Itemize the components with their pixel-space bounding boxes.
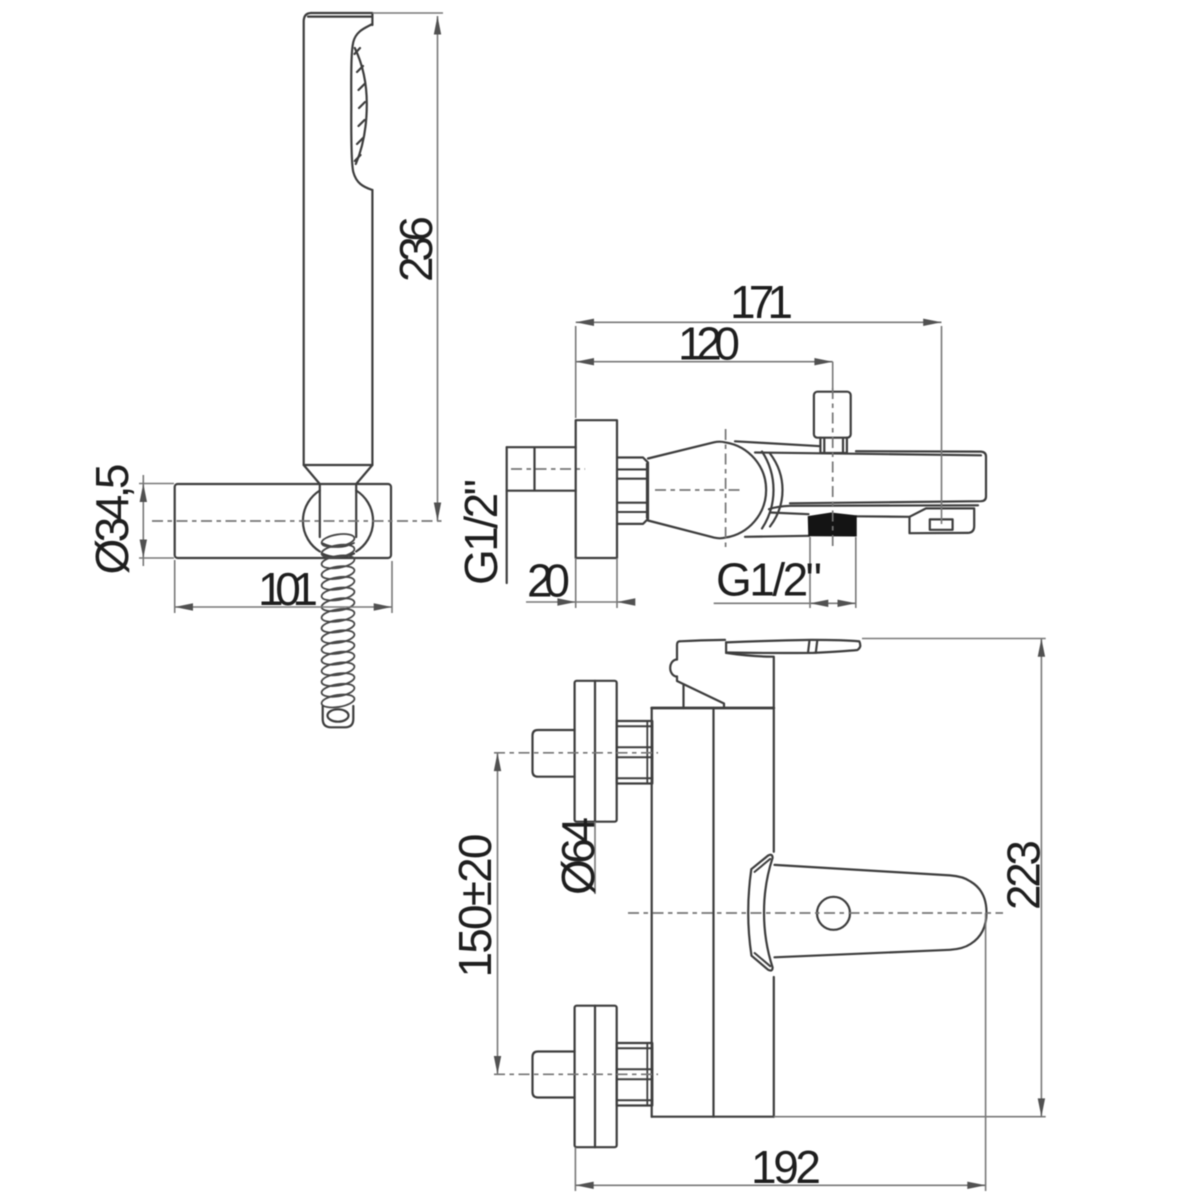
- svg-text:223: 223: [998, 840, 1050, 910]
- lower pipe centerline: [494, 1073, 658, 1075]
- hose end cap: [323, 706, 354, 727]
- upper pipe centerline: [494, 752, 658, 754]
- dimension 192 line: [575, 1184, 985, 1186]
- side view diverter knob: [814, 392, 851, 453]
- cone horizontal centerline: [655, 489, 743, 491]
- dimension 236 line: [437, 16, 439, 521]
- side view mixer body: [735, 441, 986, 509]
- front view lever top: [680, 640, 861, 657]
- dimension O34,5 arrows: [140, 484, 147, 503]
- bracket centerline: [152, 520, 443, 522]
- diverter shower outlet (black): [809, 513, 857, 536]
- side view G1/2 thread line: [506, 447, 508, 583]
- dimension 20 arrows: [557, 598, 575, 605]
- front view centerline: [628, 912, 1003, 914]
- front view upper pipe: [533, 730, 575, 777]
- wand lower taper: [304, 465, 373, 484]
- svg-text:G1/2": G1/2": [455, 479, 507, 585]
- dimension 101 extension line: [175, 560, 392, 613]
- dimension 120 extension: [832, 362, 834, 390]
- dimension O34,5 line: [142, 475, 144, 566]
- side view pipe centerline: [511, 468, 585, 470]
- side view spout aerator: [910, 508, 975, 533]
- svg-text:Ø34,5: Ø34,5: [86, 464, 138, 575]
- bracket hook ball: [303, 491, 373, 558]
- dimension 192 arrows: [575, 1182, 593, 1189]
- dimension 120 arrows: [576, 358, 594, 365]
- svg-text:192: 192: [751, 1141, 821, 1193]
- svg-text:Ø64: Ø64: [552, 817, 604, 895]
- side view wall pipe: [507, 447, 576, 491]
- side view cartridge cone: [648, 442, 766, 539]
- dimension 171 line: [576, 321, 942, 323]
- side view flange extension lines: [576, 558, 617, 608]
- dimension 223 arrows: [1038, 639, 1045, 657]
- dimension 236 extension line: [372, 12, 443, 14]
- front view upper hex nut: [617, 721, 653, 784]
- wand nozzle hatch marks: [355, 48, 366, 161]
- svg-text:20: 20: [527, 555, 570, 607]
- front view handle hub: [748, 855, 772, 971]
- hand shower wand body: [304, 13, 373, 465]
- dimension G1/2 bottom line: [714, 602, 857, 604]
- diverter knob centerline: [832, 388, 834, 550]
- front view body box: [652, 708, 774, 1117]
- front view body bottom edge and 223 extension: [652, 1116, 774, 1118]
- dimension 223 line: [1040, 639, 1042, 1117]
- dimension O34,5 extension lines: [139, 484, 174, 559]
- handle screw hole: [817, 897, 850, 930]
- svg-text:150±20: 150±20: [449, 834, 501, 978]
- wand spray face recess: [351, 24, 372, 190]
- dimension 150+-20 line: [497, 753, 499, 1075]
- front view lower flange: [575, 1006, 617, 1147]
- cone collar arcs: [762, 452, 783, 529]
- dimension 101 line: [175, 606, 392, 608]
- dimension 120 line: [576, 361, 833, 363]
- wand connector through bracket: [320, 484, 356, 537]
- front view handle lever: [775, 865, 987, 957]
- side view wall flange: [576, 420, 617, 558]
- dimension G1/2 bottom arrows: [810, 600, 828, 607]
- dimension 150+-20 arrows: [494, 753, 501, 771]
- dimension G1/2 bottom extension lines: [810, 537, 856, 608]
- dimension 171 extension lines: [576, 326, 942, 524]
- dimension O64 leader: [594, 822, 596, 894]
- svg-text:236: 236: [390, 216, 442, 282]
- svg-text:G1/2": G1/2": [716, 554, 822, 606]
- front view lower pipe: [533, 1052, 575, 1098]
- wall bracket: [175, 484, 391, 558]
- dimension 192 extension lines: [575, 913, 985, 1191]
- dimension 171 arrows: [576, 319, 594, 326]
- cone vertical centerline: [725, 429, 727, 549]
- front view upper flange: [575, 681, 617, 822]
- dimension 223 extension top: [862, 638, 1046, 640]
- dimension 236 arrows: [434, 16, 441, 35]
- side view spout underside: [745, 513, 910, 537]
- front view lower hex nut: [617, 1043, 653, 1106]
- shower hose spiral: [321, 532, 356, 710]
- dimension 20 line: [526, 601, 621, 603]
- dimension 101 arrows: [175, 603, 193, 610]
- side view ribbed connector: [617, 458, 648, 524]
- front view body cover: [670, 641, 774, 708]
- svg-text:101: 101: [258, 563, 318, 615]
- svg-text:120: 120: [678, 318, 740, 370]
